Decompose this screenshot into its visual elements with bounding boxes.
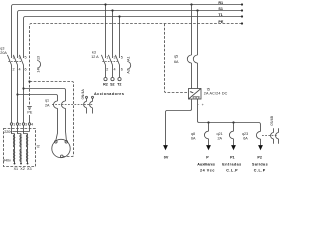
svg-text:1: 1 (106, 55, 108, 59)
breaker q3 pole 2 (13, 55, 17, 123)
breaker q3 pole 1 (7, 55, 11, 123)
transformer input terminal 1 (10, 123, 15, 127)
bus S1 end dot (241, 9, 243, 11)
svg-text:2: 2 (19, 123, 21, 127)
svg-text:6: 6 (25, 68, 27, 72)
svg-text:T2: T2 (117, 83, 121, 87)
220v tap bus (13, 131, 30, 133)
transformer winding 1 (13, 134, 15, 165)
k3 output terminal T2 (118, 78, 121, 81)
svg-text:t2: t2 (37, 145, 40, 149)
svg-text:P2: P2 (257, 155, 262, 159)
svg-text:q21: q21 (217, 132, 223, 136)
q5 pole1 lower wire (191, 63, 193, 89)
motor terminal bottom (61, 155, 64, 158)
svg-text:2A: 2A (218, 137, 223, 141)
fan feed wire from T1 (22, 87, 65, 101)
svg-text:C.L.P: C.L.P (226, 169, 238, 173)
svg-text:P1: P1 (230, 155, 235, 159)
transformer t2 dashed enclosure (4, 129, 36, 167)
svg-text:2: 2 (13, 68, 15, 72)
svg-text:R2: R2 (103, 83, 108, 87)
svg-text:A1: A1 (127, 56, 131, 61)
power supply t5 box (189, 89, 202, 100)
svg-text:PE: PE (218, 20, 223, 24)
P2 arrow (258, 145, 263, 150)
bus R1 wire (12, 5, 243, 59)
breaker q1 pole 1 arc (54, 101, 58, 108)
svg-text:6A: 6A (243, 137, 248, 141)
svg-text:6A: 6A (191, 137, 196, 141)
bus PE end dot (241, 22, 243, 24)
svg-text:q23: q23 (242, 132, 248, 136)
svg-text:R1: R1 (218, 1, 223, 5)
PE drop to PSU (dashed) (165, 24, 189, 93)
fan feed wire from S1 (16, 93, 57, 101)
svg-text:440v: 440v (3, 159, 11, 163)
svg-text:13: 13 (36, 56, 40, 60)
svg-text:4: 4 (31, 123, 33, 127)
svg-text:20A: 20A (0, 51, 7, 55)
PE ground symbol (27, 107, 32, 110)
motor terminal left (55, 141, 58, 144)
svg-text:5: 5 (25, 55, 27, 59)
svg-text:k3: k3 (92, 50, 96, 54)
svg-text:X1: X1 (14, 167, 19, 171)
motor M1 circle (52, 139, 70, 157)
svg-text:1: 1 (13, 123, 15, 127)
svg-text:05/4B: 05/4B (270, 115, 274, 125)
aux contact stubs left pair (84, 96, 94, 113)
svg-text:S1: S1 (218, 7, 223, 11)
q3 cross-reference flag (36, 56, 40, 73)
transformer input terminal 2 (16, 123, 21, 127)
transformer input terminal 3 (22, 123, 27, 127)
svg-text:A2: A2 (127, 69, 131, 74)
svg-text:+: + (202, 103, 204, 107)
svg-text:3: 3 (114, 55, 116, 59)
svg-text:Entradas: Entradas (222, 163, 241, 167)
P arrow (206, 145, 211, 150)
wire PE continuation to transformer terminal 4 (29, 115, 31, 123)
svg-text:12 A: 12 A (91, 55, 99, 59)
svg-text:6: 6 (121, 68, 123, 72)
svg-text:5: 5 (121, 55, 123, 59)
svg-text:0V: 0V (164, 155, 169, 159)
0V output wire (166, 99, 192, 145)
breaker q8 drop (204, 121, 209, 145)
svg-text:14: 14 (36, 68, 40, 72)
k3 linkage dashed (102, 61, 117, 63)
bus PE wire (dashed) (30, 24, 243, 106)
bus S1 wire (18, 11, 243, 59)
breaker q1 pole 1 wire (56, 108, 58, 140)
svg-text:2A AC/24 DC: 2A AC/24 DC (204, 91, 228, 95)
transformer winding 3 (26, 134, 28, 165)
contactor k3 pole 1 (101, 3, 106, 77)
contactor k3 pole 3 (115, 15, 120, 77)
q5 pole2 lower wire (197, 63, 199, 89)
breaker q23 drop (256, 131, 260, 145)
breaker q1 pole 2 wire (65, 108, 68, 140)
PSU feed wire from S1 (196, 9, 198, 55)
transformer winding 2 (20, 134, 22, 165)
svg-text:3: 3 (25, 123, 27, 127)
bus T1 wire (24, 17, 243, 59)
PSU feed wire from R1 (190, 3, 192, 55)
breaker q5 pole 2 arc (193, 55, 197, 63)
q1 linkage dashed (52, 104, 93, 106)
bus R1 end dot (241, 3, 243, 5)
svg-text:24 Vcc: 24 Vcc (200, 169, 215, 173)
svg-text:4: 4 (114, 68, 116, 72)
svg-text:6A: 6A (174, 60, 179, 64)
svg-text:q1: q1 (45, 99, 49, 103)
0V arrow (163, 145, 168, 150)
breaker q21 drop (229, 121, 234, 145)
contactor k3 pole 2 (108, 9, 113, 77)
k3 cross-reference flag (127, 56, 131, 73)
svg-text:X2: X2 (20, 167, 25, 171)
svg-text:4: 4 (19, 68, 21, 72)
breaker q5 pole 1 arc (187, 55, 191, 63)
svg-text:Salidas: Salidas (252, 163, 268, 167)
transformer input wires (12, 125, 30, 133)
breaker q3 pole 3 (19, 55, 23, 123)
motor terminal right (65, 141, 68, 144)
k3 output terminal R2 (104, 78, 107, 81)
k3 output terminal S2 (111, 78, 114, 81)
PE branch to motor (dashed) (28, 80, 73, 156)
svg-text:Auxiliares: Auxiliares (197, 163, 215, 167)
svg-text:2: 2 (106, 68, 108, 72)
svg-text:X3: X3 (27, 167, 32, 171)
breaker q1 pole 2 arc (62, 101, 66, 108)
transformer input terminal 4 (28, 123, 33, 127)
svg-text:S2: S2 (110, 83, 115, 87)
24V output wire + bus (198, 99, 261, 131)
svg-text:C.L.P: C.L.P (254, 169, 266, 173)
svg-text:Accionadores: Accionadores (94, 92, 124, 96)
q23 linkage dashed (262, 135, 278, 137)
svg-text:2A: 2A (45, 104, 50, 108)
aux contact stubs right pair (271, 128, 279, 144)
svg-text:q8: q8 (191, 132, 195, 136)
svg-text:q5: q5 (174, 55, 178, 59)
svg-text:T1: T1 (218, 13, 222, 17)
svg-text:PE: PE (27, 110, 32, 114)
q3 linkage dashed (8, 61, 21, 63)
P1 arrow (231, 145, 236, 150)
bus T1 end dot (241, 15, 243, 17)
svg-text:0N/4A: 0N/4A (81, 89, 85, 100)
